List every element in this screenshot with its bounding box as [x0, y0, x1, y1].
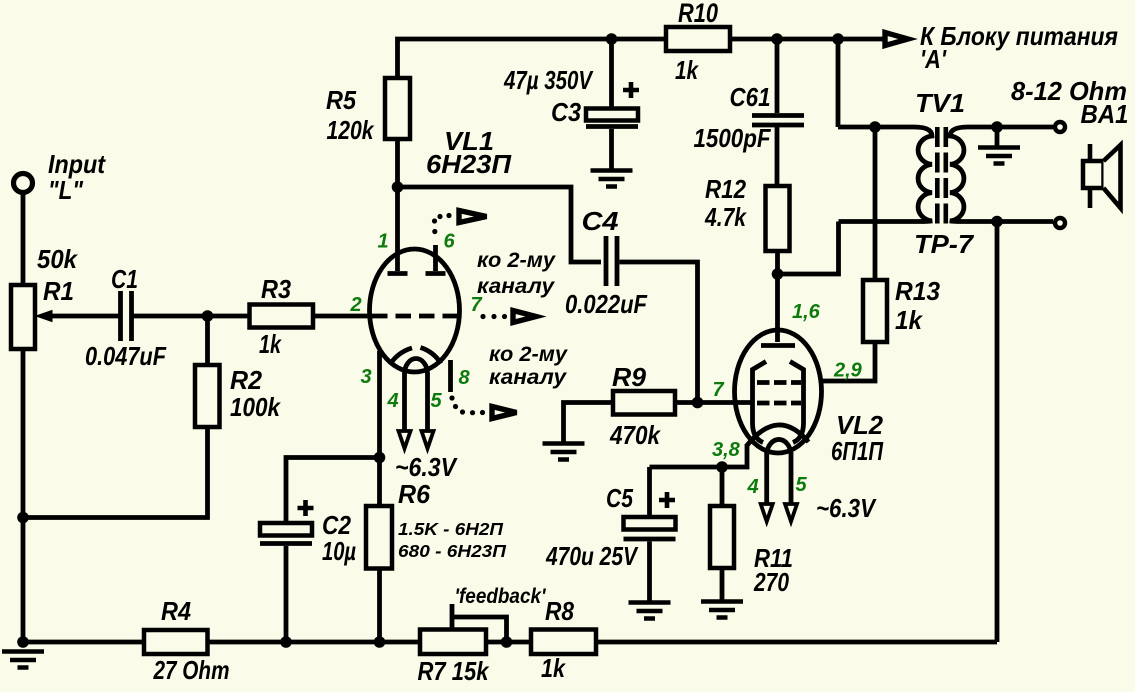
wire VL1 anode pin1 lead [395, 187, 400, 271]
svg-text:~6.3V: ~6.3V [395, 452, 458, 482]
svg-text:4: 4 [386, 390, 398, 412]
label C2 [322, 510, 351, 540]
resistor R8 [531, 630, 596, 655]
svg-text:27 Ohm: 27 Ohm [153, 655, 230, 685]
wire C3 top lead [609, 39, 614, 109]
resistor R3 [250, 305, 314, 328]
label C5 [606, 483, 633, 513]
svg-text:1k: 1k [541, 653, 566, 683]
svg-text:8: 8 [458, 367, 470, 389]
wire node to R2 [205, 316, 210, 365]
node ground rail left [17, 636, 29, 648]
wire primary top [838, 125, 914, 130]
capacitor C1 [121, 291, 132, 341]
label C1 [111, 264, 138, 294]
label ~6.3V VL2 [816, 493, 877, 523]
svg-text:7: 7 [470, 294, 482, 316]
svg-text:2,9: 2,9 [833, 360, 863, 382]
label 1k R8 [541, 653, 566, 683]
label 680 - 6Н23П [398, 541, 506, 561]
svg-text:5: 5 [795, 474, 807, 496]
wire R2 bottom to R1 column [23, 427, 208, 518]
label 1k R10 [675, 55, 699, 85]
label R11 [754, 543, 793, 573]
label BA1 [1081, 99, 1129, 129]
label ТР-7 [914, 229, 975, 259]
transformer TV1 secondary winding [950, 127, 968, 222]
heater VL2 leads [767, 452, 791, 504]
svg-text:3,8: 3,8 [712, 439, 741, 461]
wire screen to R13 [820, 342, 875, 381]
svg-text:'А': 'А' [920, 44, 947, 74]
svg-text:ТР-7: ТР-7 [914, 229, 975, 259]
node C2 bottom [280, 636, 292, 648]
potentiometer R7 [420, 630, 486, 655]
screen grid VL2 dashed [757, 380, 801, 385]
terminal Input L [14, 174, 33, 193]
svg-text:1.5K - 6Н2П: 1.5K - 6Н2П [398, 519, 503, 539]
label 10µ [322, 536, 356, 566]
wire anode node to primary bottom [778, 222, 839, 275]
svg-text:1: 1 [377, 231, 388, 253]
node secondary bottom tap [991, 216, 1003, 228]
label TV1 [915, 88, 965, 118]
resistor R4 [144, 630, 208, 654]
svg-text:1,6: 1,6 [792, 301, 821, 323]
label 100k [230, 392, 281, 422]
control grid VL2 dashed [757, 401, 801, 406]
speaker BA1 [1083, 144, 1121, 208]
svg-text:R6: R6 [398, 479, 431, 509]
label 270 [753, 567, 789, 597]
wire VL1 anode pin6 lead [433, 245, 438, 271]
svg-text:470k: 470k [609, 420, 661, 450]
label 0.022uF [565, 289, 648, 319]
svg-text:1500pF: 1500pF [694, 123, 772, 153]
label 120k [327, 115, 375, 145]
wire anode VL1 to C4 [398, 187, 602, 262]
wire R5 bottom to anode node [395, 139, 400, 187]
wire R13 top to primary top [873, 127, 878, 280]
pin 5 [430, 390, 442, 412]
dotted arrow to 2nd channel bottom [449, 395, 516, 418]
heater VL1 arrowheads [399, 431, 434, 449]
svg-text:270: 270 [753, 567, 789, 597]
svg-text:каналу: каналу [477, 275, 555, 298]
wire C61 top lead [775, 39, 780, 113]
label R5 [326, 85, 356, 115]
svg-text:120k: 120k [327, 115, 375, 145]
pin 2 [349, 294, 361, 316]
svg-text:К Блоку питания: К Блоку питания [920, 21, 1118, 51]
svg-text:R10: R10 [678, 0, 718, 28]
anode plate pin6 VL1 [426, 271, 446, 276]
node C3 tap [606, 33, 618, 45]
wire C4 to R9 node [620, 262, 698, 403]
anode plate pin1 VL1 [388, 271, 408, 276]
label 6Н23П [426, 149, 512, 179]
label 50k [37, 244, 78, 274]
label 1k R3 [259, 329, 282, 359]
pin 3,8 [712, 439, 741, 461]
pin 1 [377, 231, 388, 253]
label 27 Ohm [153, 655, 230, 685]
wire C1 to node [132, 314, 250, 319]
svg-text:0.022uF: 0.022uF [565, 289, 648, 319]
wiper arrow R1 [36, 311, 120, 322]
svg-text:0.047uF: 0.047uF [85, 341, 167, 371]
arrow to power supply [885, 33, 908, 46]
svg-text:47µ 350V: 47µ 350V [503, 65, 594, 95]
label Input [48, 149, 106, 179]
cathode VL1 [391, 348, 442, 375]
svg-text:6П1П: 6П1П [831, 436, 884, 466]
svg-text:C5: C5 [606, 483, 633, 513]
svg-text:R12: R12 [705, 174, 746, 204]
resistor R5 [385, 78, 410, 139]
beam plate left VL2 [753, 362, 767, 443]
svg-text:3: 3 [360, 366, 371, 388]
svg-text:R3: R3 [261, 274, 291, 304]
svg-text:ко 2-му: ко 2-му [477, 249, 556, 272]
label "L" [48, 175, 84, 205]
resistor R10 [666, 27, 730, 51]
label C4 [582, 206, 620, 236]
label C3 [551, 97, 581, 127]
label 470u 25V [545, 541, 639, 571]
node R9/C4/grid [692, 397, 704, 409]
svg-text:6Н23П: 6Н23П [426, 149, 512, 179]
svg-text:4: 4 [746, 476, 758, 498]
wire ground rail [23, 640, 997, 645]
label К Блоку питания [920, 21, 1118, 51]
label R12 [705, 174, 746, 204]
ground C3 [591, 171, 633, 187]
wire VL1 pin8 stub [448, 360, 453, 392]
beam plate right VL2 [790, 362, 804, 443]
wire C61 to R12 [775, 127, 780, 186]
label R10 [678, 0, 718, 28]
terminal bottom BA1 [1055, 218, 1065, 228]
node R13 tap [869, 121, 881, 133]
resistor R9 [613, 391, 675, 415]
wire B+ top rail [398, 39, 885, 78]
ground R9 [543, 444, 585, 460]
pin 4 VL2 [746, 476, 758, 498]
resistor R13 [863, 280, 887, 342]
capacitor C4 [606, 236, 617, 286]
svg-text:R8: R8 [545, 596, 574, 626]
wire primary bottom [839, 219, 915, 224]
resistor R6 [366, 506, 392, 569]
svg-text:R5: R5 [326, 85, 356, 115]
svg-text:C61: C61 [730, 82, 771, 112]
label 470k [609, 420, 661, 450]
pin 5 VL2 [795, 474, 807, 496]
label 'feedback' [455, 585, 547, 608]
svg-text:680 - 6Н23П: 680 - 6Н23П [398, 541, 506, 561]
capacitor C61 [752, 116, 804, 126]
svg-text:2: 2 [349, 294, 361, 316]
label 'А' [920, 44, 947, 74]
heater VL2 arrowheads [761, 504, 797, 522]
svg-text:C4: C4 [582, 206, 620, 236]
label R6 [398, 479, 431, 509]
capacitor C3 [586, 82, 639, 127]
resistor R11 [710, 506, 734, 568]
wire pin3 VL1 to C2 [286, 458, 380, 522]
wire R3 to VL1 grid [313, 314, 372, 319]
ground main [2, 652, 44, 668]
svg-text:10µ: 10µ [322, 536, 356, 566]
wire R9 right to VL2 grid [675, 400, 753, 405]
ground secondary [978, 148, 1020, 164]
label ко 2-му (bottom) [489, 343, 568, 366]
wire input to R1 [21, 194, 26, 286]
wire VL2 cathode lead [650, 444, 748, 467]
wire ground stub secondary [995, 127, 1000, 146]
pin 7 VL2 [712, 379, 724, 401]
tube VL2 envelope [735, 330, 822, 453]
node grid VL1 [202, 310, 214, 322]
ground R11 [701, 602, 743, 618]
node R7 wiper tap [501, 636, 513, 648]
svg-text:4.7k: 4.7k [704, 202, 747, 232]
svg-text:BA1: BA1 [1081, 99, 1129, 129]
wire R12 bottom to anode node VL2 [775, 251, 780, 342]
svg-text:~6.3V: ~6.3V [816, 493, 877, 523]
node secondary ground tap [991, 121, 1003, 133]
svg-text:R9: R9 [612, 362, 647, 392]
svg-text:1k: 1k [259, 329, 282, 359]
label R1 [43, 276, 74, 306]
pin 7 [470, 294, 482, 316]
node R12/anode/primary [772, 268, 784, 280]
svg-text:ко 2-му: ко 2-му [489, 343, 568, 366]
svg-text:R2: R2 [230, 365, 263, 395]
label R7 15k [418, 656, 490, 686]
grid VL1 dashed [372, 314, 461, 319]
wire R9 left to ground [564, 403, 614, 443]
node cathode/R11 [716, 461, 728, 473]
transformer TV1 core [937, 127, 946, 225]
svg-text:TV1: TV1 [915, 88, 965, 118]
svg-text:'feedback': 'feedback' [455, 585, 547, 608]
label R13 [895, 276, 941, 306]
label R4 [161, 596, 191, 626]
svg-text:C3: C3 [551, 97, 581, 127]
node R1 column mid [17, 512, 29, 524]
label R9 [612, 362, 647, 392]
svg-text:5: 5 [430, 390, 442, 412]
label ко 2-му (top) [477, 249, 556, 272]
wire R11 bottom [720, 568, 725, 600]
svg-text:1k: 1k [675, 55, 699, 85]
label VL2 [836, 410, 884, 440]
label ~6.3V VL1 [395, 452, 458, 482]
wire R6 bottom [377, 569, 382, 643]
label C61 [730, 82, 771, 112]
svg-text:470u 25V: 470u 25V [545, 541, 639, 571]
svg-text:каналу: каналу [489, 366, 567, 389]
tube VL1 envelope [370, 249, 460, 372]
svg-text:7: 7 [712, 379, 724, 401]
label 1k R13 [895, 305, 923, 335]
heater VL1 leads [405, 373, 428, 432]
node R6 bottom [374, 636, 386, 648]
svg-text:100k: 100k [230, 392, 281, 422]
label R2 [230, 365, 263, 395]
wire secondary bottom drop [995, 222, 1000, 643]
wire secondary top to terminal [968, 125, 1053, 130]
label 47µ 350V [503, 65, 594, 95]
label каналу (top) [477, 275, 555, 298]
cathode VL2 [747, 425, 809, 454]
dotted arrow to 2nd channel mid [480, 311, 536, 323]
label 0.047uF [85, 341, 167, 371]
wire R1 down [21, 349, 26, 642]
wire B+ to primary top [836, 39, 841, 127]
svg-text:R4: R4 [161, 596, 191, 626]
pin 1,6 [792, 301, 821, 323]
label каналу (bottom) [489, 366, 567, 389]
wiper R7 [452, 604, 507, 642]
resistor R2 [195, 365, 220, 427]
pin 2,9 [833, 360, 863, 382]
svg-text:6: 6 [443, 231, 455, 253]
resistor R12 [766, 186, 790, 251]
label 6П1П [831, 436, 884, 466]
label 8-12 Ohm [1011, 76, 1127, 106]
label VL1 [444, 126, 494, 156]
label 1500pF [694, 123, 772, 153]
capacitor C5 [624, 467, 676, 601]
pin 4 [386, 390, 398, 412]
node TV1 drop [832, 33, 844, 45]
wire VL1 cathode pin3 down [377, 351, 382, 508]
transformer TV1 primary winding [914, 127, 932, 222]
capacitor C2 [260, 500, 314, 544]
pin 6 [443, 231, 455, 253]
dotted arrow to 2nd channel top [432, 211, 487, 235]
node anode VL1 [392, 181, 404, 193]
svg-text:1k: 1k [895, 305, 923, 335]
svg-text:R13: R13 [895, 276, 941, 306]
svg-text:C1: C1 [111, 264, 138, 294]
svg-text:50k: 50k [37, 244, 78, 274]
label R8 [545, 596, 574, 626]
label 1.5K - 6Н2П [398, 519, 503, 539]
terminal top BA1 [1055, 122, 1065, 132]
ground C5 [629, 603, 671, 619]
pin 8 [458, 367, 470, 389]
wire secondary bottom to terminal [968, 219, 1053, 224]
potentiometer R1 [11, 285, 35, 349]
wire R11 top [720, 467, 725, 506]
label R3 [261, 274, 291, 304]
pin 3 [360, 366, 371, 388]
anode plate VL2 [761, 343, 795, 348]
svg-text:R1: R1 [43, 276, 74, 306]
node pin3/C2 [374, 452, 386, 464]
label 4.7k [704, 202, 747, 232]
wire C3 bottom lead [609, 129, 614, 169]
wire C2 bottom [284, 546, 289, 642]
svg-text:"L": "L" [48, 175, 84, 205]
svg-text:R7 15k: R7 15k [418, 656, 490, 686]
node C61 tap [771, 33, 783, 45]
